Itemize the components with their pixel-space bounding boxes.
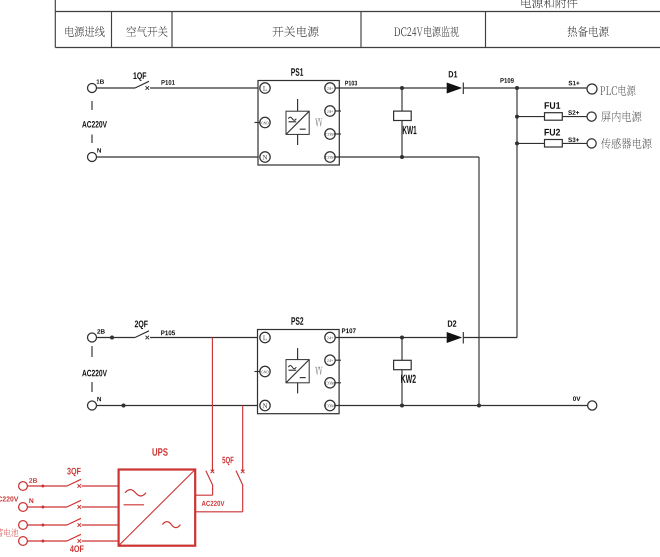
wire P105 to PS2 [150,337,260,339]
wire D2 to bus corner [463,337,517,339]
breaker 4QF pole1 [67,518,81,525]
PS1 pin GND [255,122,261,124]
label 5QF [222,457,233,466]
UPS terminal battery+ [19,521,28,530]
table column divider 4 [485,12,487,48]
relay KW1 [401,88,403,111]
label PLC电源 [600,85,635,96]
wire 2B to 2QF [97,337,136,339]
breaker 2QF [135,331,149,338]
UPS wire 1 [27,485,67,487]
wire N to PS2 [97,405,261,407]
PS2 pin COM third [335,382,341,384]
UPS AC output symbol [162,522,180,528]
PS2 pin GND [255,371,261,373]
label AC220V row1 [82,121,107,128]
PS2 converter symbol [286,360,309,383]
UPS unit box [119,470,196,546]
PS2 logo VV [315,367,322,375]
UPS terminal battery- [19,537,28,546]
PS2 pin 24+ second [335,359,341,361]
label AC220V row2 [82,370,107,377]
terminal N row2 [88,401,97,410]
terminal 0V [588,401,597,410]
terminal S2+ [587,112,596,121]
junction KW2 top [400,336,404,340]
UPS wire 4 [27,540,67,542]
relay KW2 [401,338,403,361]
table cell DC24V电源监视 [394,26,458,37]
breaker 5QF pole1 [206,471,213,485]
label S3+ [568,138,579,143]
terminal S1+ [587,84,597,94]
label S1+ [568,81,579,86]
power supply PS1 box [258,81,339,166]
UPS output wire 2 [195,511,243,513]
UPS wire 2 [27,506,67,508]
PS1 pin 24+ second [335,110,341,112]
UPS terminal 2B [19,482,28,491]
terminal N row1 [88,153,97,162]
UPS box diagonal [119,470,196,546]
UPS wire 3 [27,524,67,526]
breaker 1QF [135,81,149,88]
wire COM bus down [478,157,480,406]
wire N to PS1 [97,156,261,158]
PS2 pin COM bottom [325,400,335,410]
PS1 pin COM bottom [325,152,335,162]
table cell 开关电源 [272,26,318,37]
PS1 pin N [260,152,270,162]
PS2 pin L [260,332,270,342]
breaker 3QF pole1 [67,479,81,486]
junction KW2 bottom [400,404,404,408]
PS1 logo VV [315,119,322,127]
fuse FU2 [545,140,563,148]
wire PS1 24+ to D1 [335,87,447,89]
label S2+ [568,110,579,115]
terminal 1B [88,84,97,93]
wire PS2 24+ to D2 [335,337,447,339]
label P103 [345,81,357,86]
PS2 pin N [260,400,270,410]
table left border [54,0,56,48]
power supply PS2 box [258,330,340,414]
wire P101 to PS1 [150,87,260,89]
wire PS1 COM right [335,156,479,158]
wire FU2 row [517,142,587,144]
PS2 pin 24+ top [325,332,335,342]
junction 0V at COM bus [477,404,481,408]
UPS wire 4b [82,540,119,542]
PS1 converter symbol [286,111,309,134]
dashed link AC220V row2 [91,346,93,357]
junction N tap [122,404,126,408]
PS1 pin COM third [335,133,341,135]
junction FU1 tap [515,115,519,119]
table column divider 3 [360,12,362,48]
table cell 空气开关 [126,26,167,37]
terminal 2B [88,333,97,342]
diode D2 [447,332,463,343]
label 传感器电源 [601,138,651,149]
PS1 pin L [260,83,270,93]
UPS wire 3b [82,524,119,526]
label 0V [573,396,581,401]
breaker 4QF pole2 [67,534,81,541]
UPS AC input symbol [125,490,146,496]
UPS label AC220V output [202,501,225,506]
wire DC24V bus down [516,88,518,338]
wire FU1 row [517,116,587,118]
UPS wire 1b [82,485,119,487]
wire D1 to S1+ [463,87,587,89]
table column divider 2 [171,12,173,48]
UPS output red riser 1 [211,338,213,472]
terminal S3+ [587,139,596,148]
wire 1B to 1QF [97,87,136,89]
junction 2B tap [110,336,114,340]
junction KW1 top [400,86,404,90]
table top row divider line [55,11,660,13]
label P101 [161,80,174,85]
breaker 5QF pole2 [236,471,243,485]
UPS output wire 1 [195,494,212,496]
fuse FU1 [545,113,563,121]
table header bottom line [55,47,660,49]
wire 0V bus [335,405,588,407]
breaker 3QF pole2 [67,500,81,507]
UPS wire 2b [82,506,119,508]
table column divider 1 [111,12,113,48]
label P105 [161,331,175,336]
dashed link AC220V row1 [91,101,93,110]
UPS label AC220V left [0,496,18,501]
table cell 电源进线 [65,26,104,37]
UPS output red riser 2 [242,406,244,472]
junction FU2 tap [515,141,519,145]
table cell 热备电源 [568,26,609,37]
junction KW1 bottom [400,155,404,159]
PS1 pin 24+ top [325,83,335,93]
junction P109 [515,86,519,90]
UPS label 蓄电池 [0,528,18,536]
UPS terminal N [19,503,28,512]
table title 电源和附件 [522,0,578,8]
label 屏内电源 [601,111,641,122]
diode D1 [447,83,463,94]
label P109 [500,78,513,83]
label P107 [342,328,356,333]
